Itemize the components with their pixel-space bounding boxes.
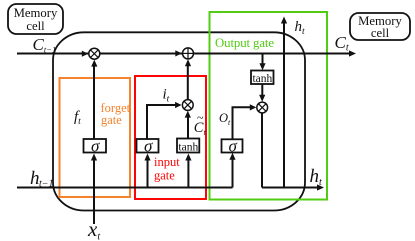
svg-text:ht−1: ht−1: [30, 168, 54, 190]
svg-text:σ: σ: [229, 136, 238, 155]
svg-text:cell: cell: [26, 19, 45, 33]
svg-text:σ: σ: [144, 136, 153, 155]
svg-text:ft: ft: [74, 109, 81, 127]
svg-text:tanh: tanh: [178, 142, 198, 154]
svg-text:it: it: [163, 87, 170, 105]
svg-text:gate: gate: [154, 169, 175, 183]
svg-text:cell: cell: [371, 26, 390, 40]
svg-text:ht: ht: [310, 166, 323, 188]
svg-text:gate: gate: [101, 113, 122, 127]
svg-text:Ct: Ct: [335, 33, 349, 54]
svg-text:σ: σ: [91, 136, 100, 155]
svg-text:ht: ht: [295, 19, 306, 37]
svg-text:tanh: tanh: [252, 73, 272, 85]
svg-text:~: ~: [197, 111, 204, 125]
svg-text:xt: xt: [87, 217, 100, 241]
svg-text:Ct−1: Ct−1: [33, 35, 57, 55]
svg-text:Memory: Memory: [14, 6, 58, 20]
svg-text:input: input: [154, 155, 180, 169]
svg-text:Output gate: Output gate: [215, 36, 274, 50]
svg-text:Ot: Ot: [219, 111, 231, 127]
